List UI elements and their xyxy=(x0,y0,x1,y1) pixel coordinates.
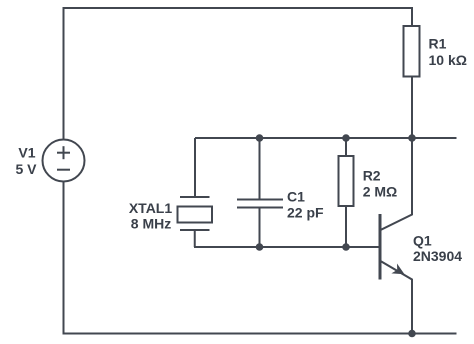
svg-text:2N3904: 2N3904 xyxy=(413,248,462,264)
svg-text:XTAL1: XTAL1 xyxy=(129,200,173,216)
svg-text:8 MHz: 8 MHz xyxy=(131,216,171,232)
wire mid bus xyxy=(195,137,457,139)
resistor R2 xyxy=(339,156,354,206)
V1 plus sign xyxy=(57,152,70,154)
wire C1 to base bus xyxy=(259,208,261,248)
svg-text:C1: C1 xyxy=(287,189,305,205)
wire bus to C1 xyxy=(259,138,261,200)
wire left rail V1- to bottom xyxy=(63,182,65,334)
wire R1 to node xyxy=(411,77,413,139)
node emitter-bottom xyxy=(408,330,416,338)
V1 circle body xyxy=(43,140,85,182)
Q1 collector lead to node xyxy=(381,138,413,230)
wire top rail V1+ to R1 xyxy=(64,8,413,140)
Q1 emitter lead to bottom rail xyxy=(381,261,413,334)
svg-text:10 kΩ: 10 kΩ xyxy=(429,52,467,68)
node base-C1 xyxy=(256,243,264,251)
Q1 emitter arrow xyxy=(391,264,404,275)
svg-text:Q1: Q1 xyxy=(413,233,432,249)
svg-text:5 V: 5 V xyxy=(15,161,37,177)
svg-text:V1: V1 xyxy=(18,145,35,161)
XTAL1 body xyxy=(178,207,213,223)
XTAL1 bottom plate xyxy=(180,229,210,231)
voltage source V1 xyxy=(43,140,85,182)
Q1 base bar xyxy=(379,214,382,280)
wire XTAL1 to base bus xyxy=(194,230,196,247)
wire R2 to base bus xyxy=(345,206,347,247)
resistor R1 xyxy=(404,26,420,77)
svg-text:2 MΩ: 2 MΩ xyxy=(363,184,398,200)
node base-R2 xyxy=(342,243,350,251)
wire bus to XTAL1 xyxy=(194,138,196,197)
node bus-R1 xyxy=(408,134,416,142)
wire bus to R2 xyxy=(345,138,347,156)
capacitor C1 xyxy=(237,200,283,208)
wire bottom rail xyxy=(63,333,457,335)
svg-text:R1: R1 xyxy=(429,36,447,52)
crystal XTAL1 xyxy=(178,197,213,247)
V1 minus sign xyxy=(57,169,70,171)
wire base bus xyxy=(194,246,380,248)
svg-text:R2: R2 xyxy=(363,167,381,183)
node bus-C1 xyxy=(256,134,264,142)
XTAL1 top plate xyxy=(180,196,210,198)
transistor Q1 xyxy=(380,138,412,334)
svg-text:22 pF: 22 pF xyxy=(287,205,324,221)
node bus-R2 xyxy=(342,134,350,142)
